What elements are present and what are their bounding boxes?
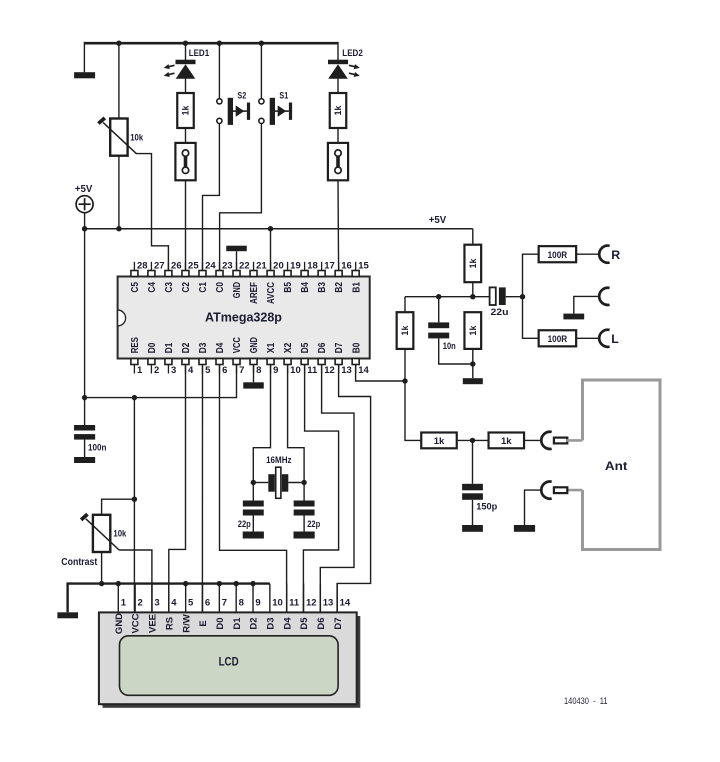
svg-text:R/W: R/W (181, 614, 192, 633)
wire S2 to pin24 (203, 124, 220, 271)
LCD pin 13 D6 (319, 584, 321, 613)
svg-text:21: 21 (256, 261, 267, 272)
wire P1 wiper to pin26 (136, 154, 168, 271)
wire R1 to JP1 (185, 128, 187, 143)
svg-text:7: 7 (222, 598, 227, 609)
LCD pin 6 E (202, 584, 204, 613)
svg-text:B3: B3 (317, 282, 328, 293)
LCD pin 5 R/W (185, 584, 187, 613)
LCD pin 12 D5 (303, 584, 305, 613)
svg-text:AREF: AREF (249, 282, 260, 304)
svg-text:26: 26 (171, 261, 182, 272)
LCD pin 7 D0 (218, 584, 220, 613)
wire R8 to jack R (576, 253, 599, 255)
svg-text:+5V: +5V (429, 214, 447, 226)
pin 6 D4 (216, 359, 223, 365)
resistor R5 1k (464, 245, 481, 283)
svg-text:150p: 150p (476, 502, 497, 513)
wire audio node horizontal (405, 296, 489, 298)
node junction P2 top (132, 497, 137, 502)
LCD pin 1 GND (117, 584, 119, 613)
wire LED2 to R2 (337, 79, 339, 94)
node junction bus-LCD5 (183, 581, 188, 586)
pin 23 C0 (216, 271, 223, 277)
svg-text:16MHz: 16MHz (266, 455, 292, 466)
svg-text:D0: D0 (215, 617, 226, 629)
antenna Ant box (583, 380, 661, 550)
pin 27 C4 (148, 271, 155, 277)
node junction audio-10n (436, 294, 441, 299)
node junction VCC-100n (82, 395, 87, 400)
node junction rail-S1 (259, 41, 264, 46)
ground below sleeve (563, 314, 584, 320)
wire D7 to LCD D7 (337, 365, 371, 613)
node junction bus-LCD7 (217, 581, 222, 586)
wire S1 to pin23 (220, 124, 262, 271)
svg-text:D2: D2 (249, 617, 260, 629)
svg-text:VCC: VCC (232, 337, 243, 353)
svg-text:12: 12 (324, 365, 335, 376)
svg-text:D1: D1 (164, 342, 175, 353)
svg-text:D7: D7 (334, 342, 345, 353)
wire sleeve to ground (574, 296, 599, 313)
svg-text:D1: D1 (232, 617, 243, 630)
svg-text:Ant: Ant (605, 459, 628, 473)
svg-text:13: 13 (341, 365, 352, 376)
svg-text:RES: RES (130, 337, 141, 354)
svg-text:1k: 1k (400, 326, 410, 336)
svg-text:22p: 22p (238, 519, 251, 530)
svg-text:ATmega328p: ATmega328p (205, 311, 282, 325)
svg-text:C5: C5 (130, 282, 141, 293)
pin 10 X2 (284, 359, 291, 365)
svg-text:17: 17 (324, 261, 335, 272)
svg-text:140430 - 11: 140430 - 11 (564, 696, 608, 706)
svg-text:C2: C2 (181, 282, 192, 293)
svg-text:D4: D4 (282, 617, 293, 630)
svg-text:22: 22 (239, 261, 250, 272)
wire P1 bottom to +5V rail (118, 156, 120, 229)
wire gray to Ant box top (566, 439, 582, 442)
node junction audio out (520, 294, 525, 299)
wire +5V down to 100n (84, 229, 86, 425)
wire rail to P1 (118, 43, 120, 119)
jumper JP1 (175, 143, 195, 180)
node junction VCC-RES (132, 395, 137, 400)
wire X1 to crystal (253, 365, 270, 483)
svg-text:S1: S1 (279, 91, 288, 102)
pin 11 D5 (301, 359, 308, 365)
svg-text:X2: X2 (283, 342, 294, 353)
wire D3 to LCD E (201, 365, 203, 613)
LCD pin 11 D4 (286, 584, 288, 613)
pin 5 D3 (199, 359, 206, 365)
capacitor C5 10n (428, 322, 449, 328)
LCD pin 14 D7 (336, 584, 338, 613)
wire crystal left to C2 (252, 483, 254, 501)
wire 100n to ground (84, 440, 86, 457)
wire P2 bottom to bus (101, 552, 103, 584)
wire rail to S1 (260, 43, 262, 98)
capacitor C3 22p (294, 501, 315, 507)
wire to P2 top (102, 499, 135, 515)
node junction bus-LCD1 (116, 581, 121, 586)
resistor R8 100R (539, 246, 577, 262)
pushbutton S1 (259, 99, 264, 104)
svg-text:B2: B2 (334, 282, 345, 293)
ground top-left (74, 72, 95, 78)
wire rail to S2 (218, 43, 220, 98)
pin 14 B0 (352, 359, 359, 365)
wire ground rail top (85, 42, 338, 45)
svg-text:10: 10 (272, 598, 283, 609)
svg-text:10k: 10k (130, 133, 144, 144)
svg-text:R: R (611, 248, 620, 262)
svg-text:2: 2 (138, 598, 143, 609)
LCD pin 2 VCC (134, 584, 136, 613)
connector jack sleeve (599, 288, 609, 305)
wire AVCC pin20 (270, 229, 272, 271)
svg-text:D5: D5 (300, 342, 311, 353)
wire node down to antenna row (405, 381, 421, 440)
svg-text:1k: 1k (333, 106, 343, 116)
wire JP1 to pin25 (185, 180, 187, 270)
wire D4 to LCD D4 (220, 365, 287, 613)
pin 2 D0 (148, 359, 155, 365)
wire crystal right to C3 (303, 483, 305, 501)
ground below 150p (462, 525, 483, 532)
svg-text:22u: 22u (491, 307, 509, 318)
svg-text:14: 14 (358, 365, 369, 376)
pin 13 D7 (335, 359, 342, 365)
wire gray to Ant box bottom (566, 489, 582, 492)
LCD pin 9 D2 (252, 584, 254, 613)
svg-text:1: 1 (121, 598, 127, 609)
wire rail to LED1 (185, 43, 187, 60)
svg-text:11: 11 (289, 598, 300, 609)
svg-text:GND: GND (249, 337, 260, 353)
svg-text:D7: D7 (333, 617, 344, 629)
wire antenna node to 150p (472, 440, 474, 483)
pin 20 AVCC (267, 271, 274, 277)
wire ground bus (68, 584, 270, 613)
svg-text:28: 28 (137, 261, 148, 272)
pin 18 B4 (301, 271, 308, 277)
svg-text:7: 7 (239, 365, 244, 376)
wire R4 to jack (524, 439, 541, 441)
wire node to R6 (404, 297, 406, 313)
svg-text:6: 6 (205, 598, 210, 609)
svg-text:4: 4 (188, 365, 194, 376)
resistor R2 1k (330, 93, 347, 128)
svg-text:C3: C3 (164, 282, 175, 293)
node junction bus-P2 (99, 581, 104, 586)
node junction rail-P1 (116, 41, 121, 46)
node junction antenna (470, 438, 475, 443)
pin 16 B2 (335, 271, 342, 277)
ground below C2 (243, 532, 264, 539)
svg-text:6: 6 (222, 365, 227, 376)
pin 4 D2 (182, 359, 189, 365)
wire P2 wiper to LCD VEE (119, 550, 152, 612)
ground pin22 (226, 246, 247, 252)
svg-text:VCC: VCC (131, 613, 142, 633)
pin 15 B1 (352, 271, 359, 277)
svg-text:D3: D3 (198, 342, 209, 353)
svg-text:22p: 22p (307, 519, 320, 530)
node junction bus-LCD9 (250, 581, 255, 586)
svg-text:D5: D5 (299, 617, 310, 630)
svg-text:RS: RS (164, 617, 175, 630)
wire rail corner to LED2 (337, 42, 339, 61)
svg-text:C1: C1 (198, 282, 209, 293)
svg-text:1k: 1k (468, 326, 478, 336)
pin 22 GND (233, 271, 240, 277)
resistor R4 1k (489, 433, 525, 449)
svg-text:1k: 1k (434, 436, 445, 447)
svg-text:13: 13 (323, 598, 334, 609)
pin 9 X1 (267, 359, 274, 365)
svg-text:X1: X1 (266, 342, 277, 353)
wire +5V rail corner to R5 (472, 229, 474, 245)
svg-text:D6: D6 (317, 342, 328, 353)
wire +5V rail (85, 228, 473, 230)
resistor R1 1k (177, 93, 194, 128)
wire 150p to ground (472, 500, 474, 525)
node junction audio-R5 (470, 294, 475, 299)
svg-text:9: 9 (255, 598, 260, 609)
svg-text:GND: GND (232, 282, 243, 298)
node junction R7-C5 (470, 361, 475, 366)
pin 1 RES (131, 359, 138, 365)
LCD module body (103, 616, 361, 708)
ground pin8 (243, 382, 264, 388)
capacitor C1 100n (74, 425, 95, 431)
node junction rail-P1bottom (116, 226, 121, 231)
pin 17 B3 (318, 271, 325, 277)
svg-text:100R: 100R (548, 250, 568, 261)
svg-text:1: 1 (137, 365, 143, 376)
connector jack L (599, 330, 609, 347)
svg-text:23: 23 (222, 261, 233, 272)
wire R7 to ground (472, 349, 474, 378)
LED LED2 (328, 60, 348, 64)
svg-text:B4: B4 (300, 282, 311, 293)
svg-text:C4: C4 (147, 282, 158, 293)
svg-text:100n: 100n (88, 442, 107, 453)
supply +5V symbol (76, 196, 93, 213)
wire JP2 to pin16 (337, 180, 340, 270)
wire C2 to ground (252, 516, 254, 532)
svg-text:12: 12 (306, 598, 317, 609)
pin 25 C2 (182, 271, 189, 277)
svg-text:10: 10 (290, 365, 301, 376)
svg-text:Contrast: Contrast (61, 557, 98, 568)
svg-text:11: 11 (307, 365, 318, 376)
wire to 100R L (523, 297, 539, 339)
pin 24 C1 (199, 271, 206, 277)
svg-text:14: 14 (340, 598, 351, 609)
wire pin8 to ground (253, 365, 255, 383)
wire C3 to ground (303, 516, 305, 532)
svg-text:+5V: +5V (75, 183, 93, 195)
svg-text:5: 5 (188, 598, 194, 609)
wire C5 down (439, 338, 473, 364)
pushbutton S2 (217, 99, 222, 104)
connector antenna bottom (541, 482, 551, 499)
svg-text:D0: D0 (147, 342, 158, 353)
wire jack to ground (525, 490, 541, 525)
svg-text:4: 4 (171, 598, 177, 609)
svg-text:8: 8 (239, 598, 244, 609)
ground below antenna jack (514, 525, 535, 532)
wire ground stem top-left (83, 42, 85, 72)
svg-text:3: 3 (171, 365, 176, 376)
svg-text:1k: 1k (501, 436, 512, 447)
svg-text:24: 24 (205, 261, 216, 272)
svg-text:LCD: LCD (219, 657, 239, 669)
wire X2 to crystal (288, 365, 305, 483)
capacitor C6 22u (490, 287, 496, 305)
wire D5 to LCD D5 (303, 365, 338, 613)
wire R9 to jack L (576, 337, 599, 339)
svg-text:19: 19 (290, 261, 301, 272)
svg-text:D6: D6 (316, 617, 327, 629)
svg-text:1k: 1k (181, 106, 191, 116)
pin 26 C3 (165, 271, 172, 277)
pin 28 C5 (131, 271, 138, 277)
wire B0 to node (356, 365, 405, 382)
wire R5 to node (472, 282, 474, 297)
wire +5V to LCD VCC (133, 398, 135, 613)
node junction rail-LED1 (183, 41, 188, 46)
crystal X1 (253, 482, 268, 484)
resistor R6 1k (397, 312, 414, 349)
pin 7 VCC (233, 359, 240, 365)
svg-text:GND: GND (114, 613, 125, 634)
IC U1 ATmega328p (118, 277, 370, 359)
ground below C3 (294, 532, 315, 539)
node junction rail-AVCC (268, 226, 273, 231)
svg-text:LED1: LED1 (189, 48, 210, 59)
resistor R9 100R (539, 330, 577, 346)
connector antenna top (541, 432, 551, 449)
svg-text:2: 2 (154, 365, 159, 376)
svg-text:C0: C0 (215, 282, 226, 293)
capacitor C4 150p (462, 484, 483, 491)
wire D6 to LCD D6 (320, 365, 354, 613)
node junction crystal left (251, 480, 256, 485)
wire gnd to pin22 (236, 251, 238, 270)
node junction B0 (402, 378, 407, 383)
svg-text:10n: 10n (443, 341, 456, 352)
node junction crystal right (301, 480, 306, 485)
pin 12 D6 (318, 359, 325, 365)
ground below 100n (74, 457, 95, 463)
pin 21 AREF (250, 271, 257, 277)
LCD pin 4 RS (168, 584, 170, 613)
svg-text:8: 8 (256, 365, 261, 376)
svg-text:D3: D3 (265, 617, 276, 629)
wire to 100R R (523, 254, 539, 297)
wire D2 to LCD RS (169, 365, 186, 613)
wire R3 to R4 (457, 439, 489, 441)
LCD pin 8 D1 (235, 584, 237, 613)
svg-text:S2: S2 (237, 91, 246, 102)
ground below R7 (463, 378, 483, 384)
node junction rail-S2 (217, 41, 222, 46)
svg-text:B1: B1 (351, 282, 362, 293)
svg-text:27: 27 (154, 261, 165, 272)
svg-text:1k: 1k (468, 258, 478, 268)
svg-text:E: E (198, 620, 209, 626)
LED LED1 (176, 60, 196, 64)
svg-text:B5: B5 (283, 282, 294, 293)
svg-text:10k: 10k (113, 529, 127, 540)
svg-text:16: 16 (341, 261, 352, 272)
LCD pin 10 D3 (269, 584, 271, 613)
wire LED1 to R1 (185, 79, 187, 94)
wire VCC pin7 (85, 365, 237, 398)
ground bus left (57, 612, 78, 618)
pin 8 GND (250, 359, 257, 365)
svg-text:25: 25 (188, 261, 199, 272)
svg-text:VEE: VEE (148, 614, 159, 633)
potentiometer P2 10k Contrast (93, 515, 110, 552)
potentiometer P1 10k (110, 119, 127, 156)
connector jack R (599, 246, 609, 263)
node junction rail-vert (82, 226, 87, 231)
svg-text:20: 20 (273, 261, 284, 272)
pin 3 D1 (165, 359, 172, 365)
svg-text:D2: D2 (181, 342, 192, 353)
svg-text:9: 9 (273, 365, 278, 376)
svg-text:15: 15 (358, 261, 369, 272)
svg-text:18: 18 (307, 261, 318, 272)
resistor R7 1k (464, 312, 481, 349)
svg-text:D4: D4 (215, 342, 226, 353)
svg-text:L: L (611, 332, 619, 346)
svg-text:100R: 100R (548, 334, 568, 345)
node junction bus-LCD8 (233, 581, 238, 586)
svg-text:LED2: LED2 (342, 48, 363, 59)
wire R2 to JP2 (337, 128, 339, 143)
svg-text:5: 5 (205, 365, 211, 376)
wire node to C5 (438, 297, 440, 323)
svg-text:3: 3 (154, 598, 159, 609)
svg-text:AVCC: AVCC (266, 282, 277, 304)
resistor R3 1k (421, 433, 457, 449)
wire R6 to B0 node (404, 349, 406, 381)
jumper JP2 (328, 143, 348, 180)
LCD pin 3 VEE (151, 584, 153, 613)
capacitor C2 22p (243, 501, 264, 507)
svg-text:B0: B0 (351, 342, 362, 353)
wire +5V symbol to rail (84, 213, 86, 229)
pin 19 B5 (284, 271, 291, 277)
